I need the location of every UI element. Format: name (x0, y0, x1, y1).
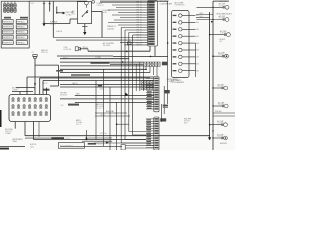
dark label bar bottom-left (0, 148, 9, 150)
wires into strip C2a (146, 78, 154, 109)
svg-text:SW FEED: SW FEED (103, 45, 111, 47)
svg-text:PPL 91: PPL 91 (137, 37, 142, 39)
svg-text:PWR ACC: PWR ACC (17, 26, 26, 29)
svg-text:A/C CMP: A/C CMP (218, 101, 224, 104)
wire: riser x103.5 (103, 69, 105, 146)
splice S110 (150, 56, 152, 58)
svg-text:DG: DG (196, 36, 199, 38)
wire: C200 drop 4 (38, 122, 40, 137)
label at bracket line 2 (163, 106, 168, 107)
bracket: instrument cluster (163, 86, 165, 114)
splice on bus (209, 34, 210, 35)
svg-text:PPL 91: PPL 91 (137, 25, 142, 27)
svg-text:PPL 91: PPL 91 (137, 20, 142, 22)
connector C100 (bulkhead) (75, 47, 82, 51)
wire: run y69.3 (60, 68, 147, 70)
wire (50, 85, 59, 87)
terminal of lamp: hi blower relay (224, 33, 226, 35)
splice S140 (122, 61, 124, 63)
label box C210 (162, 62, 167, 66)
wire drop from C210 (156, 66, 158, 76)
label bar: heated windshield control (71, 74, 90, 75)
svg-text:PPL 91: PPL 91 (137, 5, 142, 7)
wire to vacuum motor 2 (213, 105, 222, 107)
terminal of vacuum motor 1 (221, 87, 223, 89)
fuse block FB1 (convenience center) (1, 1, 29, 48)
svg-text:PPL 91: PPL 91 (137, 2, 142, 4)
wire (69, 19, 71, 24)
wire: vertical run left of C2 (167, 1, 169, 104)
svg-text:CLUTCH: CLUTCH (218, 86, 224, 88)
row labels for strip C2a (147, 91, 152, 109)
fuse block relay cavity row 3 (3, 30, 14, 34)
svg-text:C281 OR: C281 OR (41, 52, 48, 54)
svg-text:PPL 91: PPL 91 (137, 42, 142, 44)
label box: C3 (160, 118, 166, 121)
terminal of lamp: thermostat switch (222, 55, 224, 57)
wire: drop to bulkhead run (52, 1, 54, 37)
wire: fuse block to A/C relay feed (29, 0, 86, 2)
svg-text:HORN RLY: HORN RLY (3, 37, 13, 39)
A/C compressor control relay K1 (78, 1, 92, 24)
wire to motor M1: blower motor (213, 137, 221, 139)
wire to lamp: thermostat switch (213, 55, 222, 57)
splice on riser x116.6 (116, 123, 118, 125)
instrument cluster connector strip C2a (154, 77, 159, 112)
connector C2 pin 8 (173, 63, 177, 64)
relay switch blade (82, 11, 87, 16)
svg-text:DG: DG (196, 43, 199, 45)
connector C281 (33, 55, 37, 59)
splice S132 (212, 55, 214, 57)
svg-text:BLW MTR: BLW MTR (220, 143, 228, 145)
wire: C1 drop B (154, 46, 156, 56)
svg-text:INSTRUMENT: INSTRUMENT (12, 139, 22, 141)
lamp: A/C clutch (225, 5, 229, 9)
splice on bus (212, 137, 213, 138)
relay terminal bushing (92, 0, 95, 3)
fuse block relay cavity row 1 (3, 20, 14, 24)
svg-text:T/S FLSH: T/S FLSH (100, 133, 108, 135)
wire: top right feed (213, 0, 229, 2)
wire drop from C210 (153, 66, 155, 75)
wire: run y77 (27, 76, 154, 78)
svg-text:RD 2: RD 2 (31, 3, 35, 5)
svg-text:CLUTCH: CLUTCH (218, 104, 224, 106)
inline connector C220 (hatched, small) (141, 81, 153, 90)
terminal of vacuum motor 2 (222, 105, 224, 107)
terminal of lamp: heater valve (221, 124, 223, 126)
wire: run y64.2 (110, 63, 144, 65)
splice on bus (212, 87, 213, 88)
ground G101 (42, 23, 45, 26)
svg-text:DG: DG (196, 22, 199, 24)
svg-text:A/C CMP: A/C CMP (220, 30, 226, 33)
svg-text:W/S WPR: W/S WPR (184, 119, 192, 121)
wires from C2 pins to bus (189, 15, 199, 72)
splice S131 (211, 21, 213, 23)
svg-text:C100 A/C: C100 A/C (107, 27, 115, 30)
label bar on y143 (88, 143, 96, 145)
lamp: diode assy (225, 18, 229, 22)
wire: C1 drop A (149, 46, 151, 51)
wire: short feed 2 (12, 91, 33, 93)
svg-text:A/C CMP: A/C CMP (217, 133, 223, 136)
svg-text:PPL 91: PPL 91 (137, 27, 142, 29)
wire: jog down (87, 49, 89, 51)
lamp: thermostat switch (225, 54, 229, 58)
wire: run y146.4 (60, 145, 122, 147)
fusible link FL1 (63, 12, 66, 15)
wire: relay NO contact out (92, 11, 103, 13)
wire: riser x116.6 (116, 103, 118, 151)
wire: right exit A (213, 112, 235, 114)
fuse block label bar (4, 17, 11, 19)
svg-text:A/C CMP: A/C CMP (218, 52, 224, 55)
label at bracket line 1 (163, 105, 168, 106)
wire: riser 3 corner to C3 (129, 131, 146, 133)
wire: drop into IP connector (26, 77, 28, 95)
wire: run y80.5 (43, 80, 154, 82)
wire from component to C3 second (125, 147, 154, 149)
svg-text:DIM: DIM (61, 105, 65, 107)
svg-text:BRN 9: BRN 9 (76, 120, 81, 122)
fuse block relay cavity row 2 (3, 25, 14, 29)
label frame bottom-center (58, 143, 84, 149)
wire: drop (19, 92, 21, 95)
wire: drop into IP connector (42, 81, 44, 95)
wire: drop x136.2 to C220 (135, 64, 137, 91)
splice on bus (212, 105, 213, 106)
wire: right bus A (212, 1, 214, 150)
svg-text:PWR ACC: PWR ACC (17, 41, 26, 44)
connector C2 pin 6 (173, 49, 177, 50)
svg-text:PPL 91: PPL 91 (137, 17, 142, 19)
label box on y84.5 run (98, 85, 102, 87)
label bar mid (68, 104, 79, 106)
wire: riser 2 corner to C3 (125, 139, 146, 141)
instrument panel harness connector C200 (9, 95, 51, 122)
wire to lamp: diode assy (197, 19, 223, 21)
svg-text:DG: DG (196, 29, 199, 31)
svg-text:HORN RLY: HORN RLY (3, 21, 13, 23)
svg-text:2 GRN 75: 2 GRN 75 (97, 5, 104, 7)
printed circuit connector strip C3 (154, 117, 159, 150)
fuse block relay cavity row 5 (3, 41, 14, 45)
wire: riser 2 to lower cluster (124, 30, 126, 140)
svg-text:DG: DG (196, 64, 199, 66)
inline component at y43 (127, 42, 131, 45)
ground strap (82, 25, 88, 27)
splice S120 (167, 42, 169, 44)
pin arrow of C100 (80, 48, 82, 50)
wire drop from C210 (149, 66, 151, 72)
wire: jog y124.2 (117, 123, 129, 125)
wire: run y116 (95, 115, 130, 117)
wire (113, 55, 168, 57)
A/C-heater control head connector C2 (172, 11, 190, 78)
wire from component to C3 (125, 145, 154, 147)
svg-text:BLK 150: BLK 150 (30, 144, 36, 146)
wire: run y138 (88, 137, 112, 139)
wire: C2 pin bus (195, 43, 197, 77)
wire: drop x139.8 to C220 (139, 62, 141, 91)
svg-text:BRN 41: BRN 41 (83, 47, 88, 49)
svg-text:CLUSTER SW: CLUSTER SW (160, 3, 173, 5)
wire: run y84.5 (60, 84, 154, 86)
splice S111 (126, 51, 128, 53)
component box bottom-center (121, 145, 125, 150)
terminal of motor M1: blower motor (221, 137, 223, 139)
wire to lamp: hi blower relay (210, 34, 225, 36)
wire: run y65.9 (60, 65, 144, 67)
relay contact (82, 16, 83, 17)
wire: C281 to IP connector (34, 58, 36, 94)
svg-text:CLUTCH: CLUTCH (219, 5, 225, 7)
splice on bus (209, 124, 210, 125)
wire: blower feed (196, 14, 213, 16)
svg-text:PPL 91: PPL 91 (137, 32, 142, 34)
label bar: instrument panel run (51, 137, 64, 139)
svg-text:CONTROLS: CONTROLS (175, 5, 186, 7)
wire: C281 branch right (35, 64, 59, 66)
svg-text:HI BLOWER RELAY C: HI BLOWER RELAY C (217, 12, 233, 15)
relay coil terminal (85, 1, 89, 5)
svg-text:GRY 8: GRY 8 (76, 124, 81, 126)
svg-text:PPL 91: PPL 91 (137, 45, 142, 47)
wire: run y98.9 (60, 98, 154, 100)
svg-text:CLUTCH: CLUTCH (219, 18, 225, 20)
relay internal lead (85, 5, 87, 8)
wire: run y102.4 (75, 101, 154, 103)
svg-text:BLK 8 C2: BLK 8 C2 (96, 108, 103, 110)
arrowhead on y143 run (106, 142, 109, 144)
svg-text:HTD WS: HTD WS (60, 92, 66, 94)
svg-text:RLY: RLY (72, 13, 76, 15)
svg-text:CLUSTER: CLUSTER (167, 81, 176, 83)
connector C2 pin 7 (173, 56, 177, 57)
svg-text:PPL 91: PPL 91 (137, 7, 142, 9)
wire: run y143 (94, 142, 154, 144)
wire: riser x96 (95, 81, 97, 140)
wires into strip C3 (146, 119, 154, 148)
svg-text:BLW: BLW (200, 13, 204, 15)
wire: run y113 (95, 112, 127, 114)
wire to vacuum motor 1 (213, 87, 222, 89)
svg-text:A/C FUSE: A/C FUSE (5, 128, 12, 131)
svg-text:PPL 91: PPL 91 (137, 12, 142, 14)
splice on bus (212, 56, 213, 57)
ground G102 (83, 32, 86, 35)
svg-text:A/C CMP: A/C CMP (219, 15, 225, 18)
svg-text:PNL LPS: PNL LPS (5, 131, 12, 133)
wire: right exit B (213, 115, 235, 117)
wire: run y87 (60, 86, 154, 88)
svg-text:HORN RLY: HORN RLY (3, 42, 13, 44)
inline connector C210 (hatched) (144, 62, 160, 66)
relay contact (87, 10, 88, 11)
ground G200 (208, 137, 211, 140)
vacuum motor 2 (224, 104, 228, 108)
connector C2 pin 1 (173, 15, 177, 16)
fuse block relay cavity row 4 (3, 35, 14, 39)
svg-text:PPL 91: PPL 91 (137, 40, 142, 42)
svg-text:ASH TRAY: ASH TRAY (106, 110, 115, 113)
svg-text:BODY HARNESS: BODY HARNESS (60, 145, 73, 148)
wire: fusible link drop (43, 1, 45, 23)
wire: riser 1 to lower cluster (120, 28, 122, 144)
svg-text:B C2 G: B C2 G (65, 138, 71, 140)
lamp: hi blower relay (227, 33, 231, 37)
element of lamp: thermostat switch (226, 55, 228, 57)
svg-text:IGN 3 PNK: IGN 3 PNK (96, 106, 105, 108)
wire: long run y135.7 (25, 135, 210, 137)
label box: cluster (165, 90, 170, 93)
label bar: heated windshield (91, 62, 110, 63)
wire stub (34, 88, 36, 90)
wire (88, 50, 150, 52)
svg-text:RLY: RLY (220, 41, 224, 43)
svg-text:HI BLW: HI BLW (220, 39, 226, 41)
row labels for strip C3 (146, 119, 151, 144)
wire: jog down (58, 65, 60, 86)
lamp: heater valve (224, 123, 228, 127)
wire: relay ground lead (84, 24, 86, 27)
scan edge artifact bar (0, 110, 2, 127)
wire: C200 drop 3 (32, 122, 34, 140)
svg-text:A/C DIODE: A/C DIODE (220, 0, 228, 3)
svg-text:PPL 91: PPL 91 (137, 10, 142, 12)
terminal of lamp: diode assy (223, 18, 225, 20)
svg-text:CLUTCH: CLUTCH (220, 33, 226, 35)
wire: run y62.1 (60, 61, 144, 63)
connector C2 pin 9 (173, 70, 177, 71)
svg-text:MODULE: MODULE (60, 95, 67, 97)
wire: drop (46, 88, 48, 95)
svg-text:PNK 150: PNK 150 (97, 143, 103, 145)
svg-text:PPL 91: PPL 91 (137, 22, 142, 24)
wire: drop to splice S102 (56, 6, 58, 12)
connector C2 pin 5 (173, 42, 177, 43)
wire: run y95.5 (75, 95, 154, 97)
wire: bottom left run (0, 146, 25, 148)
bulkhead connector C1 terminal strip (148, 1, 158, 46)
svg-text:A/C CMP: A/C CMP (217, 120, 223, 123)
wire (57, 12, 63, 14)
wire: C200 drop 2 (24, 122, 26, 136)
svg-text:A/C FUSE: A/C FUSE (12, 87, 19, 90)
svg-text:A/C CMP: A/C CMP (218, 83, 224, 86)
svg-text:PPL 91: PPL 91 (137, 35, 142, 37)
wire: drop x143.5 to C220 (143, 66, 145, 91)
connector C2 pin 2 (173, 22, 177, 23)
label bar P/N (56, 70, 63, 72)
wire: run y56 (57, 55, 113, 57)
svg-text:LT GRN: LT GRN (95, 57, 102, 59)
splice S102 (56, 12, 58, 14)
svg-text:WINDSHIELD: WINDSHIELD (71, 77, 82, 79)
bracket between strips (161, 104, 163, 122)
wire drop from C210 (145, 66, 147, 70)
svg-text:PWR ACC: PWR ACC (17, 36, 26, 39)
svg-text:RADIO 10: RADIO 10 (96, 103, 103, 106)
svg-text:C210: C210 (100, 88, 104, 90)
splice on bus (212, 7, 213, 8)
svg-text:C100: C100 (64, 47, 68, 49)
svg-text:PNK BLK: PNK BLK (215, 111, 223, 113)
svg-text:PWR ACC: PWR ACC (17, 20, 26, 23)
wire: riser 3 to lower cluster (128, 33, 130, 132)
wire: long run y139.5 (33, 139, 146, 141)
svg-text:PPL 91: PPL 91 (137, 15, 142, 17)
svg-text:LINK B: LINK B (50, 24, 56, 26)
terminal strip C1 feeds: harness rows (53, 2, 147, 46)
wire: run y58.7 (60, 58, 129, 60)
svg-text:TAN 43: TAN 43 (72, 82, 77, 85)
svg-text:PWR ACC: PWR ACC (17, 31, 26, 34)
svg-text:G200: G200 (30, 146, 34, 148)
svg-text:CLUTCH: CLUTCH (217, 123, 223, 125)
wire: run y72.5 (60, 72, 150, 74)
svg-text:L BLU 8: L BLU 8 (56, 31, 62, 33)
svg-text:HORN RLY: HORN RLY (3, 32, 13, 34)
svg-text:CLUTCH: CLUTCH (218, 54, 224, 56)
svg-text:MOTOR: MOTOR (184, 121, 191, 123)
wire: feed to instrument harness (100, 0, 168, 2)
splice on bus (212, 19, 213, 20)
wire: C200 drop 1 (14, 122, 16, 129)
inline connector chevron on x44 drop (43, 3, 45, 5)
wire (196, 16, 210, 18)
direction arrow on C281 wire (34, 83, 36, 85)
svg-text:DG: DG (196, 70, 199, 72)
inline connector chevron on x49.7 drop (49, 3, 51, 5)
wire: drop to bulkhead run (101, 12, 103, 38)
svg-text:HORN RLY: HORN RLY (3, 27, 13, 29)
wire (44, 23, 70, 25)
wire: riser 1 corner to C3 (121, 142, 146, 144)
wire: riser 4 to lower cluster (132, 35, 134, 135)
wire to lamp: heater valve (210, 124, 222, 126)
wire into label bar (25, 137, 51, 139)
wire to lamp: A/C clutch (197, 6, 223, 8)
svg-text:GRY 8: GRY 8 (101, 115, 106, 117)
wire into relay (70, 18, 77, 20)
wire: riser 4 corner to C3 (133, 134, 146, 136)
splice arrow artifact (125, 93, 129, 97)
junction dots bottom (209, 124, 210, 125)
wire: short feed (16, 87, 35, 89)
wire: drop to splice (86, 130, 88, 138)
wire: riser x110 (109, 87, 111, 150)
svg-text:RES: RES (200, 16, 203, 18)
wire: run y141.2 (82, 140, 112, 142)
wire (84, 26, 86, 31)
svg-text:DG: DG (196, 57, 199, 59)
svg-text:C1 BLK: C1 BLK (97, 3, 103, 5)
connector C2 pin 4 (173, 36, 177, 37)
svg-text:CAB LGT: CAB LGT (41, 49, 48, 52)
motor M1: blower motor (224, 136, 228, 140)
vacuum motor 1 (224, 86, 228, 90)
splice blob S150 (86, 137, 88, 140)
element of motor M1: blower motor (225, 137, 227, 139)
svg-text:DG: DG (196, 50, 199, 52)
wire: C100 run (82, 48, 88, 50)
svg-text:2B: 2B (32, 52, 34, 54)
wire: drop to splice S101 (49, 1, 51, 11)
svg-text:PPL 91: PPL 91 (137, 30, 142, 32)
